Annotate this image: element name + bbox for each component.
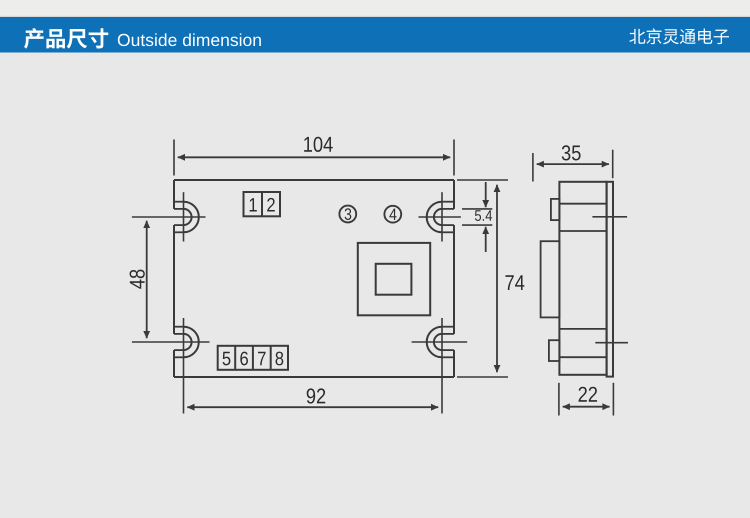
header title CJK 产品尺寸 [24, 28, 108, 49]
indicator circle 4 [384, 206, 401, 223]
center component outer square [358, 243, 430, 315]
indicator circle 3 [339, 206, 356, 223]
header right CJK 北京灵通电子 [629, 28, 729, 44]
mounting ear top-right [419, 192, 461, 241]
dimension 22 [563, 387, 610, 407]
side view left block [541, 241, 560, 317]
dimension 74 bottom extension [457, 376, 508, 378]
side view bottom mounting centerline [595, 342, 628, 344]
dimension 35 extension lines [533, 150, 613, 182]
dimension 5.4 arrows [485, 182, 487, 252]
side view bottom screw tab [549, 340, 560, 361]
header top strip [0, 0, 750, 17]
dimension 5.4 extension lines [462, 209, 492, 225]
terminal block 5 6 7 8 [218, 346, 288, 370]
side view base plate [607, 182, 613, 377]
dimension 48 [130, 221, 147, 338]
side view body outline [559, 182, 606, 375]
dimension 35 [537, 145, 609, 164]
dimension 74 top extension [457, 179, 508, 181]
dimension 74 [497, 185, 524, 372]
mounting ear top-left [132, 192, 206, 241]
dimension 22 extension lines [559, 383, 614, 416]
dimension 104 [178, 137, 450, 158]
side view bottom section line [559, 356, 606, 358]
center component inner square [376, 264, 412, 295]
side view top mounting centerline [592, 216, 627, 218]
mounting ear bottom-left [132, 318, 210, 414]
terminal block 1 2 [244, 192, 281, 216]
side view top section line [559, 203, 606, 205]
side view upper terminal line [559, 230, 606, 232]
dimension 5.4 label [475, 210, 492, 221]
dimension 104 extension lines [174, 140, 454, 176]
front view body outline [174, 180, 454, 377]
mounting ear bottom-right [412, 318, 468, 414]
side view lower terminal line [559, 328, 606, 330]
dimension 92 [187, 388, 438, 407]
side view top screw tab [551, 199, 560, 220]
header blue bar [0, 17, 750, 53]
header subtitle Outside dimension [118, 33, 261, 46]
